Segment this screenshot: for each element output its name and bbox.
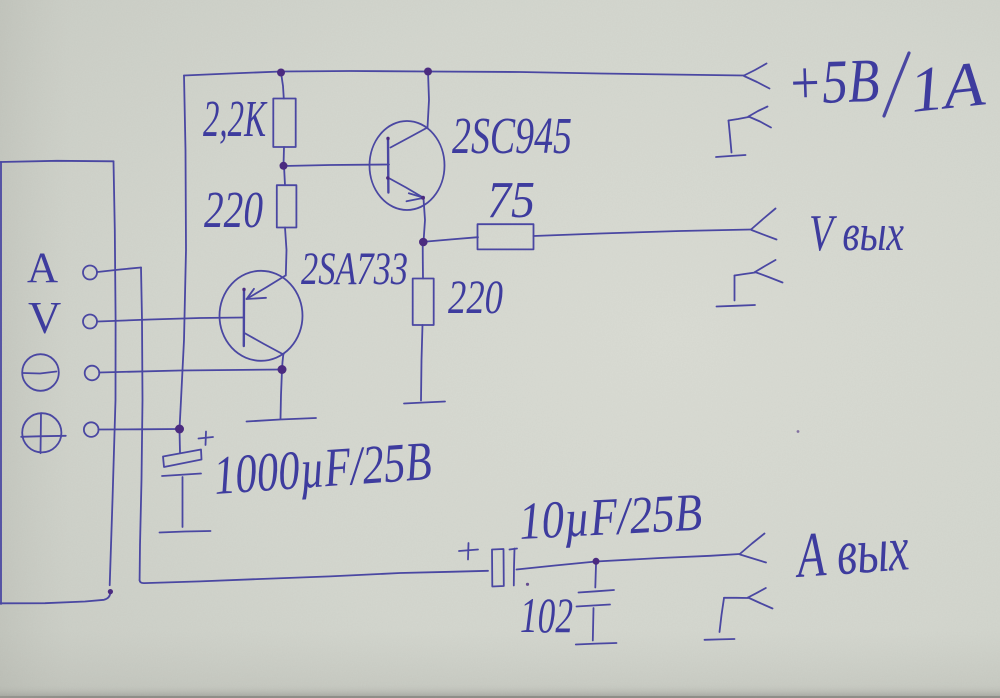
svg-text:V: V [28, 292, 61, 343]
svg-text:220: 220 [204, 182, 263, 239]
svg-text:10µF/25В: 10µF/25В [518, 483, 704, 550]
svg-text:220: 220 [448, 271, 503, 324]
svg-text:2SC945: 2SC945 [452, 108, 572, 165]
svg-text:102: 102 [520, 587, 573, 643]
svg-text:2SA733: 2SA733 [301, 243, 408, 295]
svg-text:75: 75 [487, 172, 535, 229]
svg-text:2,2K: 2,2K [203, 91, 267, 148]
svg-text:А вых: А вых [791, 512, 911, 591]
svg-text:1А: 1А [906, 47, 988, 125]
svg-text:A: A [27, 245, 58, 292]
svg-text:V вых: V вых [809, 205, 904, 262]
svg-text:+5В: +5В [786, 47, 880, 118]
